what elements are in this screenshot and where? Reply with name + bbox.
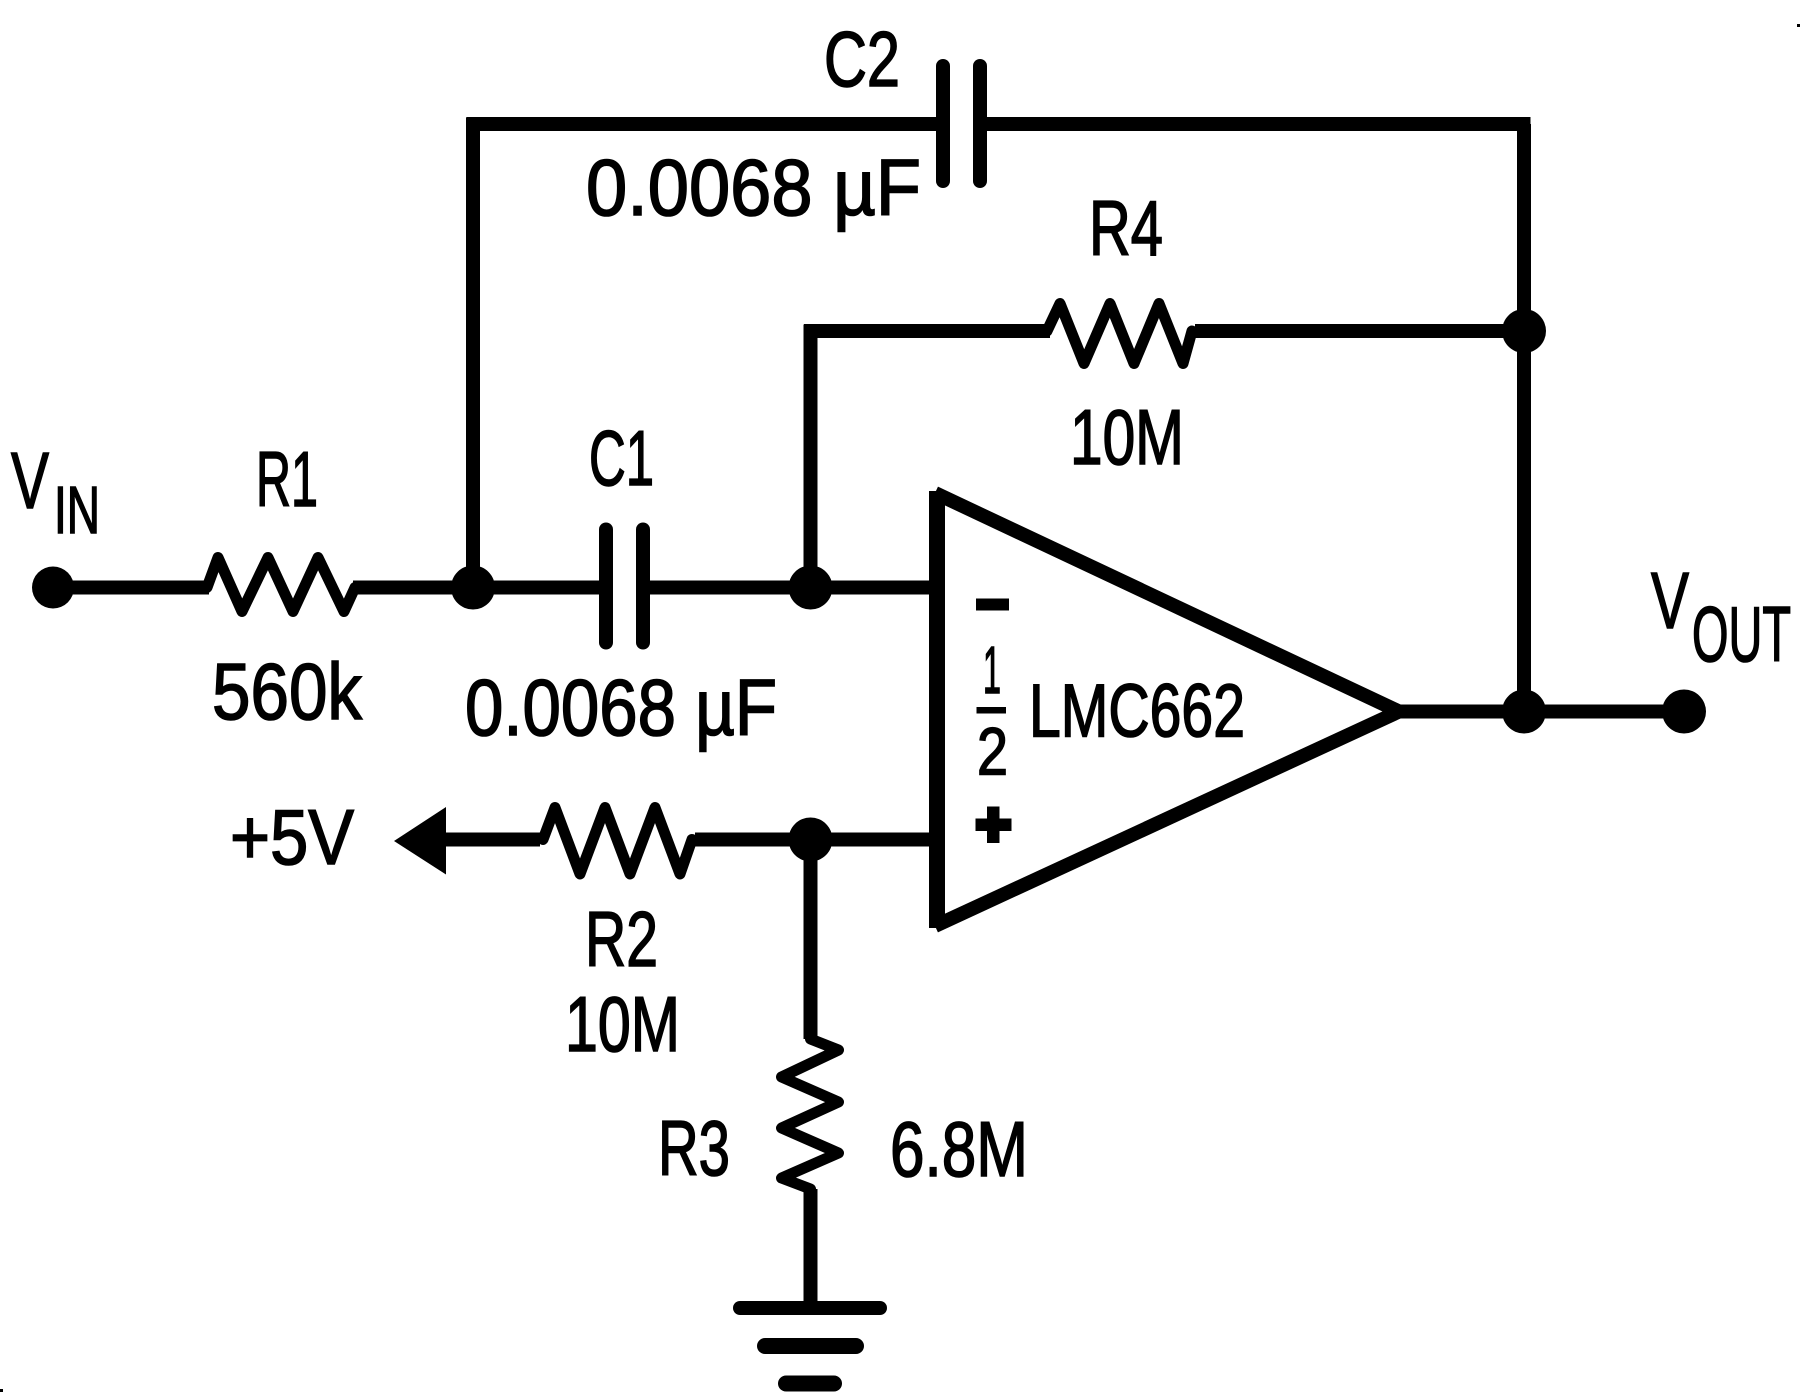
op-amp inverting pin minus sign xyxy=(976,599,1009,611)
ground xyxy=(740,1308,880,1384)
+5V supply arrow xyxy=(394,807,446,875)
wire R4 right lead to feedback node xyxy=(1195,324,1524,338)
resistor R2 10M zigzag xyxy=(543,808,692,875)
capacitor C2 right plate xyxy=(973,66,987,181)
junction node A (R1/C1/C2) xyxy=(451,566,495,610)
svg-text:560k: 560k xyxy=(212,647,363,736)
svg-text:6.8M: 6.8M xyxy=(890,1105,1028,1193)
label VOUT xyxy=(1651,556,1791,678)
capacitor C2 left plate xyxy=(936,66,950,181)
svg-text:+5V: +5V xyxy=(230,793,354,881)
svg-text:10M: 10M xyxy=(1070,393,1184,481)
terminal VOUT dot xyxy=(1662,690,1706,734)
wire C1 right plate to op-amp inverting input xyxy=(649,581,930,595)
capacitor C1 right plate xyxy=(636,530,650,643)
wire node C down to R3 xyxy=(804,840,818,1040)
resistor R4 10M zigzag xyxy=(1047,304,1192,364)
label VIN xyxy=(11,436,100,548)
speck artifact bottom left xyxy=(0,1389,3,1392)
svg-text:10M: 10M xyxy=(565,980,680,1068)
wire R3 to ground xyxy=(804,1189,818,1303)
junction node C (R2/R3/op-amp +) xyxy=(789,818,833,862)
wire op-amp output to VOUT terminal xyxy=(1395,705,1684,719)
terminal VIN dot xyxy=(32,567,74,609)
resistor R3 6.8M zigzag (vertical) xyxy=(782,1039,839,1189)
svg-text:0.0068 µF: 0.0068 µF xyxy=(586,143,921,232)
svg-text:1: 1 xyxy=(983,633,1001,708)
wire +5V arrow to R2 xyxy=(440,833,540,847)
wire C2 right plate to right feedback rail xyxy=(986,117,1531,131)
svg-text:LMC662: LMC662 xyxy=(1029,669,1245,753)
wire R2 to op-amp non-inverting input xyxy=(695,833,930,847)
svg-text:0.0068 µF: 0.0068 µF xyxy=(465,663,777,752)
op-amp non-inverting pin plus sign xyxy=(976,807,1012,844)
junction node B (C1/op-amp/R4) xyxy=(789,566,833,610)
label 1/2 (op-amp half designator) xyxy=(977,633,1009,790)
svg-text:C1: C1 xyxy=(589,414,654,502)
resistor R1 560k zigzag xyxy=(207,558,355,612)
svg-text:R4: R4 xyxy=(1089,184,1163,272)
wire R4 left lead xyxy=(804,324,1050,338)
svg-text:C2: C2 xyxy=(824,15,900,103)
svg-text:OUT: OUT xyxy=(1692,590,1791,678)
junction output node xyxy=(1502,690,1546,734)
svg-text:2: 2 xyxy=(977,715,1008,790)
junction node R4/feedback rail xyxy=(1502,309,1546,353)
svg-text:V: V xyxy=(1651,556,1689,645)
capacitor C1 left plate xyxy=(599,530,613,643)
svg-text:R3: R3 xyxy=(658,1104,730,1192)
svg-text:IN: IN xyxy=(54,473,100,548)
svg-text:V: V xyxy=(11,436,49,525)
wire top rail to C2 left plate xyxy=(467,117,938,131)
wire right feedback rail down to output node xyxy=(1517,124,1531,712)
svg-text:R2: R2 xyxy=(585,895,658,983)
op-amp U1 LMC662 triangle xyxy=(935,491,1398,928)
svg-text:R1: R1 xyxy=(256,435,318,523)
wire R1 to C1 left plate xyxy=(353,581,600,595)
speck artifact top right xyxy=(1797,24,1800,27)
wire VIN to R1 xyxy=(53,581,209,595)
wire node A up to top feedback rail xyxy=(466,118,480,595)
wire node B up to R4 xyxy=(804,325,818,595)
